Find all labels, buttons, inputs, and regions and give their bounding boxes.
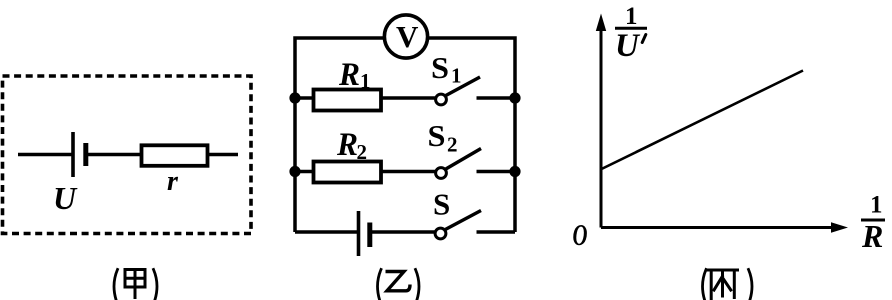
resistor R2 (314, 162, 382, 183)
wire (bottom-left to battery) (295, 230, 359, 234)
node (junction dot, right of S2) (509, 166, 520, 177)
svg-text:R: R (861, 218, 883, 254)
label S1 (431, 50, 462, 88)
battery (cell in branch S) (359, 211, 370, 256)
wire (S to bottom-right corner) (477, 230, 516, 234)
label R2 (336, 127, 367, 164)
wire (left lead into battery) (18, 153, 73, 156)
x-axis (1/R axis) (601, 222, 848, 232)
label 1/R (x-axis) (861, 192, 885, 255)
battery U (cell: long and short plates) (73, 132, 86, 177)
resistor r (142, 145, 208, 166)
wire (resistor r to right) (208, 153, 239, 156)
wire (S2 to right rail) (477, 170, 516, 173)
wire (S1 to right rail) (477, 96, 516, 99)
svg-text:R: R (338, 57, 360, 93)
wire (left rail to R2) (295, 170, 314, 173)
switch S1 (436, 77, 480, 105)
node (junction dot, left of R1) (289, 92, 300, 103)
svg-text:U: U (615, 28, 641, 64)
plot line (1/U' vs 1/R) (602, 71, 804, 170)
svg-text:2: 2 (447, 133, 458, 157)
caption (乙) (378, 270, 420, 300)
svg-text:S: S (433, 187, 450, 222)
svg-text:1: 1 (870, 192, 883, 219)
svg-text:2: 2 (357, 140, 368, 164)
label R1 (338, 57, 370, 93)
wire (battery to switch S) (370, 230, 435, 234)
switch S (435, 211, 481, 239)
switch S2 (436, 149, 481, 179)
resistor R1 (314, 90, 382, 111)
wire (R1 to switch S1) (381, 96, 436, 99)
label S2 (428, 118, 458, 157)
voltmeter V (384, 15, 427, 58)
y-axis (1/U' axis) (596, 14, 606, 228)
wire (battery to resistor r) (86, 153, 142, 156)
svg-text:1: 1 (451, 64, 462, 88)
svg-text:1: 1 (625, 3, 638, 30)
svg-text:R: R (336, 127, 358, 163)
svg-text:S: S (431, 50, 449, 85)
wire (R2 to switch S2) (381, 170, 436, 173)
caption (甲) (114, 270, 157, 300)
svg-text:S: S (428, 118, 446, 153)
svg-text:1: 1 (360, 69, 371, 93)
wire (voltmeter to top-right corner, down right side) (428, 38, 515, 232)
node (junction dot, left of R2) (289, 166, 300, 177)
svg-text:r: r (167, 166, 179, 197)
wire (left rail to R1) (295, 96, 314, 99)
label 1/U' (y-axis) (615, 3, 647, 64)
wire (top-left of circuit 乙, to voltmeter) (295, 38, 385, 232)
dashed box (equivalent source, panel 甲) (3, 76, 252, 234)
node (junction dot, right of S1) (509, 92, 520, 103)
svg-text:O: O (573, 217, 588, 252)
svg-text:V: V (396, 19, 419, 54)
caption (丙) (703, 270, 753, 300)
svg-text:U: U (53, 180, 78, 216)
